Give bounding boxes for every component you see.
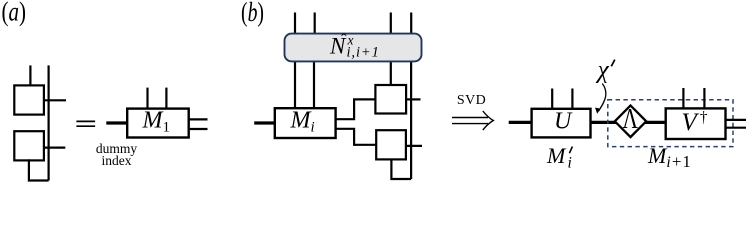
svg-text:index: index (102, 153, 132, 168)
wire: V right double line bottom (726, 127, 746, 129)
wire: M1 top leg 1 (146, 88, 148, 109)
wire: leg N to square B1 (390, 61, 392, 85)
tensor box M1 (127, 109, 189, 138)
tensor square B1 (upper) (375, 85, 406, 114)
wire: B2 bottom hook (391, 159, 411, 179)
wire: N top leg 4 (410, 13, 412, 35)
tensor box V dagger (666, 108, 726, 139)
wire: diamond to V (645, 121, 667, 124)
tensor box Mi (275, 108, 336, 138)
tensor box U (532, 109, 591, 138)
wire: N top leg 2 (314, 13, 316, 35)
wire: dummy index leg (thick) into M1 (106, 121, 128, 124)
wire: N top leg 1 (294, 13, 296, 35)
svg-text:M: M (546, 143, 567, 168)
svg-text:i,i+1: i,i+1 (347, 44, 380, 60)
wire: M1 right double line bottom (189, 128, 208, 130)
wire: B2 right stub (406, 145, 422, 147)
svg-text:χ: χ (596, 56, 610, 83)
arrow Longrightarrow (452, 111, 493, 130)
equals sign (76, 121, 95, 126)
wire: leg N to Mi 1 (294, 61, 296, 108)
svg-text:i: i (568, 155, 572, 172)
svg-text:(a): (a) (2, 0, 27, 27)
wire: right stub of A2 (44, 147, 65, 149)
wire: U top leg 1 (551, 89, 553, 109)
wire: Mi lower branch to B2 (336, 129, 377, 145)
wire: top leg of square A1 (29, 65, 31, 86)
wire: thick leg into U (509, 121, 533, 124)
diamond Lambda (615, 106, 646, 138)
label N hat x i,i+1 (329, 31, 380, 61)
arrow from chi' to bond wire (599, 84, 606, 112)
wire: leg N to Mi 2 (313, 61, 315, 108)
operator box N (rounded, gray) (285, 34, 422, 62)
tensor square A1 (14, 85, 44, 114)
tensor square A2 (14, 131, 44, 160)
dashed box grouping Lambda and V (M_i+1) (608, 100, 733, 147)
wire: M1 top leg 2 (165, 88, 167, 109)
wire: U top leg 2 (571, 89, 573, 109)
wire: V top leg 1 (682, 88, 684, 108)
tensor square B2 (lower) (376, 130, 406, 159)
wire: long vertical of part (a) (47, 65, 49, 180)
wire: M1 right double line top (189, 118, 208, 120)
wire: V right double line top (726, 119, 746, 121)
svg-text:Λ: Λ (623, 104, 639, 135)
wire: V top leg 2 (703, 88, 705, 108)
wire: long vertical of part (b) (410, 61, 412, 179)
svg-text:SVD: SVD (457, 93, 486, 108)
wire: right stub of A1 (44, 99, 66, 101)
wire: B1 right stub (406, 98, 420, 100)
wire: U to diamond (chi' bond) (591, 121, 617, 124)
wire: N top leg 3 (390, 13, 392, 35)
svg-text:(b): (b) (241, 0, 264, 27)
wire: bottom hook of A2 (29, 159, 49, 180)
svg-text:U: U (554, 109, 573, 135)
wire: thick leg into Mi (254, 121, 276, 124)
wire: Mi upper branch to B1 (336, 99, 376, 119)
